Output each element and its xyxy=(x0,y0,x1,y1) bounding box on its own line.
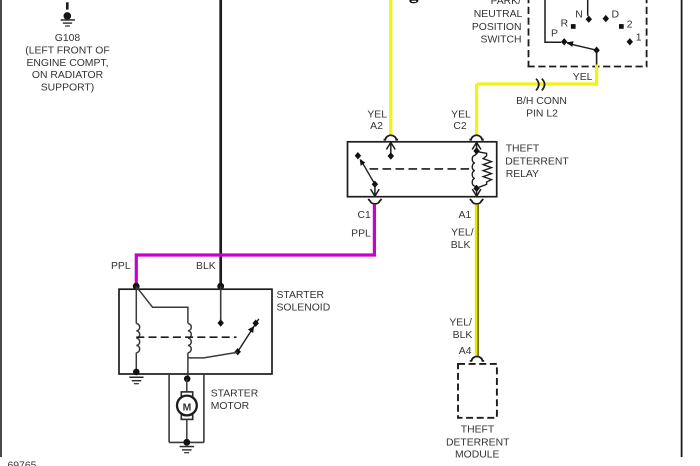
svg-text:69765: 69765 xyxy=(8,461,37,466)
label STARTER MOTOR xyxy=(211,388,259,411)
switch internal wire L xyxy=(545,0,561,42)
theft deterrent relay box xyxy=(348,142,497,197)
terminal A4 xyxy=(470,356,484,360)
svg-text:PPL: PPL xyxy=(111,261,131,272)
svg-text:THEFT: THEFT xyxy=(461,425,495,436)
relay switch pivot contact xyxy=(372,181,378,188)
svg-text:A1: A1 xyxy=(458,210,471,221)
solenoid coil 2 xyxy=(188,324,191,353)
terminal A2 xyxy=(384,135,398,139)
svg-text:BLK: BLK xyxy=(453,330,473,341)
svg-text:STARTER: STARTER xyxy=(277,290,325,301)
svg-text:PARK/: PARK/ xyxy=(491,0,522,7)
relay C1 arrow down xyxy=(371,184,380,196)
svg-text:R: R xyxy=(561,19,569,30)
ground (solenoid case) xyxy=(129,377,143,385)
svg-text:MODULE: MODULE xyxy=(455,449,500,460)
contact P xyxy=(561,38,567,45)
wire YEL from switch xyxy=(477,65,597,85)
wire YEL to relay C2 xyxy=(475,84,478,135)
svg-text:YEL: YEL xyxy=(573,72,593,83)
contact R xyxy=(571,24,576,29)
svg-text:SUPPORT): SUPPORT) xyxy=(41,82,95,93)
starter motor case left xyxy=(168,374,170,442)
motor ground wire xyxy=(186,419,188,442)
relay switch arm xyxy=(360,159,375,184)
label YEL/BLK (lower) xyxy=(449,318,472,341)
relay dashed link xyxy=(370,168,473,170)
relay A2 arrow up xyxy=(386,142,395,156)
contact 1 xyxy=(627,38,633,45)
svg-text:PPL: PPL xyxy=(351,228,371,239)
relay switch fixed contact xyxy=(355,152,361,159)
svg-text:YEL: YEL xyxy=(367,109,387,120)
svg-text:SWITCH: SWITCH xyxy=(481,34,522,45)
terminal A1 xyxy=(470,199,483,204)
solenoid switch upper contact xyxy=(253,320,259,327)
node motor ground xyxy=(183,439,190,446)
contact D xyxy=(603,15,609,22)
starter solenoid box xyxy=(119,289,272,374)
label B/H CONN PIN L2 xyxy=(516,96,567,120)
svg-text:ON RADIATOR: ON RADIATOR xyxy=(32,70,104,81)
switch output wire xyxy=(596,50,598,65)
G108 location label xyxy=(25,33,109,93)
solenoid switch arm xyxy=(238,319,259,352)
svg-text:THEFT: THEFT xyxy=(506,144,540,155)
svg-text:G108: G108 xyxy=(55,33,81,44)
starter motor M1 xyxy=(177,392,197,420)
relay coil top contact xyxy=(473,147,479,154)
svg-text:RELAY: RELAY xyxy=(506,169,539,180)
label YEL A2 xyxy=(367,109,387,132)
relay C2 arrow up xyxy=(472,142,481,151)
svg-text:P: P xyxy=(551,29,558,40)
svg-text:M: M xyxy=(183,403,192,414)
svg-text:D: D xyxy=(612,10,620,21)
starter motor case bottom xyxy=(169,441,204,443)
switch pivot contact xyxy=(593,47,599,54)
relay A1 arrow down xyxy=(472,188,481,196)
svg-text:PIN L2: PIN L2 xyxy=(526,109,558,120)
label THEFT DETERRENT MODULE xyxy=(446,425,510,461)
svg-text:C1: C1 xyxy=(358,210,372,221)
solenoid switch contact (BLK) xyxy=(218,319,224,326)
terminal C2 xyxy=(469,135,483,139)
connector B/H CONN symbol xyxy=(536,79,545,91)
svg-text:DETERRENT: DETERRENT xyxy=(505,156,569,167)
solenoid coil 1 ground wire xyxy=(135,353,137,372)
wire YEL/BLK from relay A1 xyxy=(476,205,478,357)
solenoid coil 2 output wire xyxy=(187,353,189,379)
svg-text:1: 1 xyxy=(636,33,642,44)
relay contact (A2 side) xyxy=(388,152,394,159)
motor feed wire xyxy=(186,379,188,392)
terminal C1 xyxy=(368,199,381,204)
svg-text:C2: C2 xyxy=(453,121,467,132)
label YEL C2 xyxy=(451,109,471,132)
svg-text:(LEFT FRONT OF: (LEFT FRONT OF xyxy=(25,46,109,57)
solenoid dashed link xyxy=(136,336,236,338)
label A1 YEL/BLK xyxy=(451,210,474,251)
ground (motor) xyxy=(180,446,195,454)
wire PPL from relay C1 xyxy=(136,205,374,286)
switch N feed wire xyxy=(587,0,589,16)
svg-text:YEL/: YEL/ xyxy=(449,318,472,329)
node BLK entry xyxy=(217,283,224,290)
svg-text:A2: A2 xyxy=(370,121,383,132)
svg-text:BLK: BLK xyxy=(451,240,471,251)
wire BLK main vertical to starter solenoid xyxy=(219,0,222,286)
solenoid switch output to motor xyxy=(188,352,238,358)
solenoid hold-in coil feed xyxy=(137,287,188,323)
solenoid pull-in coil feed xyxy=(135,286,137,323)
relay coil bottom contact xyxy=(473,185,479,192)
svg-text:DETERRENT: DETERRENT xyxy=(446,437,510,448)
label C1 PPL xyxy=(351,210,371,240)
node PPL entry xyxy=(133,283,140,290)
label NEUTRAL POSITION SWITCH xyxy=(472,9,523,45)
theft deterrent module dashed box xyxy=(458,364,497,418)
wire YEL to relay A2 xyxy=(389,0,392,135)
switch arm with arrow to P xyxy=(566,41,596,50)
svg-text:N: N xyxy=(575,10,583,21)
contact 2 xyxy=(619,24,624,29)
svg-text:STARTER: STARTER xyxy=(211,388,259,399)
svg-text:NEUTRAL: NEUTRAL xyxy=(474,9,523,20)
node coil1 ground xyxy=(133,369,140,376)
svg-text:SOLENOID: SOLENOID xyxy=(277,302,331,313)
neutral position switch dashed box xyxy=(528,0,648,67)
relay coil (wavy + resistor loop) xyxy=(472,152,491,188)
svg-text:ENGINE COMPT,: ENGINE COMPT, xyxy=(27,58,109,69)
solenoid switch feed (BLK) xyxy=(220,286,222,322)
svg-text:MOTOR: MOTOR xyxy=(211,401,250,412)
node motor feed xyxy=(184,376,191,383)
svg-text:B/H CONN: B/H CONN xyxy=(516,96,567,107)
heading fragment (cut off) xyxy=(409,0,418,3)
label STARTER SOLENOID xyxy=(277,290,331,313)
svg-text:A4: A4 xyxy=(459,346,472,357)
solenoid coil 1 xyxy=(136,324,139,353)
svg-text:YEL: YEL xyxy=(451,109,471,120)
svg-text:2: 2 xyxy=(627,20,633,31)
starter motor case right xyxy=(203,374,205,442)
label THEFT DETERRENT RELAY xyxy=(505,144,569,181)
svg-text:POSITION: POSITION xyxy=(472,22,522,33)
svg-text:YEL/: YEL/ xyxy=(451,227,474,238)
ground G108 xyxy=(61,2,75,26)
solenoid switch lower contact xyxy=(235,348,241,355)
svg-text:BLK: BLK xyxy=(196,261,216,272)
contact N xyxy=(586,16,592,23)
